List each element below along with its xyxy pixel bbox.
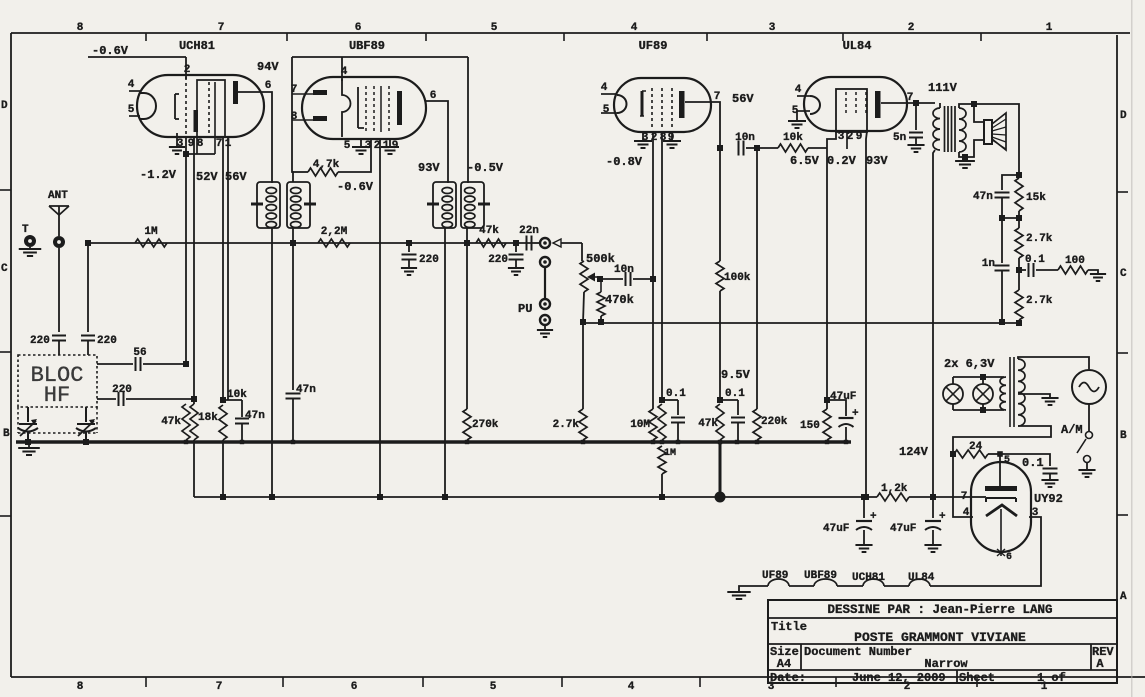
ground under switch <box>1078 470 1095 477</box>
antenna ANT <box>48 190 69 248</box>
tube UBF89 pin 4 stub <box>341 57 343 81</box>
svg-text:-0.8V: -0.8V <box>606 155 643 169</box>
svg-text:-0.5V: -0.5V <box>467 161 504 175</box>
svg-text:C: C <box>1120 268 1127 280</box>
svg-text:HF: HF <box>44 383 70 408</box>
wire mains bottom to heater node <box>953 426 1051 454</box>
resistor 2.7k (lower) <box>1015 270 1053 326</box>
svg-text:10k: 10k <box>783 132 803 144</box>
voltage labels UCH81 <box>140 168 247 184</box>
svg-text:DESSINE PAR : Jean-Pierre LANG: DESSINE PAR : Jean-Pierre LANG <box>827 603 1052 617</box>
ground under UF89 pin 3 <box>634 132 652 148</box>
resistor 220k <box>753 148 788 440</box>
svg-text:1 of: 1 of <box>1037 671 1066 685</box>
tube UF89 envelope <box>614 39 711 132</box>
border ruler numbers bottom <box>77 677 1048 693</box>
svg-text:2,2M: 2,2M <box>321 226 348 238</box>
svg-text:100k: 100k <box>724 272 751 284</box>
wire junction down to BLOC HF <box>87 243 89 332</box>
wire ANT down to BLOC HF <box>58 248 60 332</box>
tube UY92 envelope <box>971 462 1063 552</box>
svg-text:7: 7 <box>961 491 968 503</box>
wire heater chain to ground <box>739 586 768 592</box>
svg-text:220: 220 <box>112 384 132 396</box>
resistor 2.7k (AF) <box>553 323 587 440</box>
border row letters left <box>0 100 11 516</box>
transformer MAINS secondary winding <box>1018 359 1025 426</box>
svg-text:Document Number: Document Number <box>804 645 912 659</box>
resistor 2,2M <box>318 226 350 247</box>
transformer IF2 primary <box>426 101 456 228</box>
speaker <box>965 104 1006 157</box>
svg-text:220: 220 <box>97 335 117 347</box>
capacitor 47uF (cathode) <box>827 391 859 441</box>
wire UCH81 pin 9 column to B+ rail <box>193 137 195 160</box>
jack terminal top <box>540 238 550 248</box>
ground under UF89 pin 9 <box>663 132 681 148</box>
resistor 47k (UCH81 grid) <box>161 404 190 440</box>
terminal T <box>22 224 36 247</box>
wire UY92 pin 7 anode feed <box>971 496 986 498</box>
svg-text:6: 6 <box>351 681 358 693</box>
node junction -0.6V line <box>85 240 91 246</box>
svg-text:7: 7 <box>216 681 223 693</box>
svg-text:UF89: UF89 <box>639 39 668 53</box>
trimmer capacitor left under BLOC HF <box>18 407 38 441</box>
ground under UBF89 pin 3 <box>352 139 370 154</box>
capacitor 0.1 (10M) <box>662 388 686 441</box>
svg-text:ANT: ANT <box>48 190 68 202</box>
wire UL84 screen column to B+ rail <box>863 131 869 500</box>
resistor 1M (antenna) <box>135 226 167 247</box>
wire UY92 pin 3 to heater chain <box>930 517 1041 586</box>
svg-text:7: 7 <box>291 84 298 96</box>
svg-text:1n: 1n <box>982 258 995 270</box>
svg-text:+: + <box>939 511 946 523</box>
svg-text:220: 220 <box>488 254 508 266</box>
transformer OUT primary <box>933 103 940 150</box>
svg-text:52V: 52V <box>196 170 218 184</box>
node pot wiper <box>597 276 603 282</box>
capacitor 1n <box>982 218 1010 325</box>
bus junction nodes <box>184 440 848 444</box>
svg-text:1: 1 <box>1046 22 1053 34</box>
svg-text:124V: 124V <box>899 445 929 459</box>
wire secondary top to tone network <box>974 104 1022 178</box>
resistor 100 <box>1058 255 1098 274</box>
ground speaker <box>955 157 975 168</box>
wire IF1 secondary bottom to detector line <box>290 228 296 390</box>
capacitor 0.1 (47k) <box>720 388 745 441</box>
svg-text:7: 7 <box>216 138 223 150</box>
tube UBF89 envelope <box>302 39 426 139</box>
svg-text:4,7k: 4,7k <box>313 159 340 171</box>
svg-text:B: B <box>3 428 10 440</box>
wire UBF89 screen column to B+ rail <box>377 139 383 500</box>
ground under 47uF 2 <box>924 545 941 552</box>
svg-text:270k: 270k <box>472 419 499 431</box>
svg-text:2: 2 <box>651 132 658 144</box>
capacitor 47uF (filter 2) <box>890 497 946 545</box>
transformer IF2 secondary <box>461 57 490 228</box>
wire UF89 anode to 10n <box>685 102 723 151</box>
svg-text:T: T <box>22 224 29 236</box>
svg-text:A4: A4 <box>777 657 791 671</box>
svg-text:10M: 10M <box>630 419 650 431</box>
tube UL84 internals <box>797 89 881 149</box>
tube UY92 internals <box>985 455 1017 563</box>
heater UF89 <box>768 579 789 586</box>
wire thick bus tap <box>719 443 722 492</box>
node trimmer right on bus <box>83 439 89 445</box>
capacitor 220 (detector) <box>488 240 523 268</box>
svg-text:2x 6,3V: 2x 6,3V <box>944 357 995 371</box>
ground under UCH81 pin 3 <box>169 133 185 154</box>
svg-text:0.2V: 0.2V <box>827 154 857 168</box>
tube UBF89 pin labels <box>291 66 437 152</box>
svg-text:2: 2 <box>184 64 191 76</box>
svg-text:Sheet: Sheet <box>959 671 995 685</box>
wire lamps top <box>953 374 1004 380</box>
node UY92 pin 5 <box>997 451 1003 457</box>
svg-text:5: 5 <box>344 140 351 152</box>
svg-text:4: 4 <box>631 22 638 34</box>
svg-text:-1.2V: -1.2V <box>140 168 177 182</box>
svg-text:A: A <box>1120 591 1127 603</box>
svg-text:UL84: UL84 <box>843 39 872 53</box>
svg-text:47k: 47k <box>161 416 181 428</box>
wire IF1 secondary top to 4.7k node <box>292 57 293 182</box>
wire detector line y=243 <box>88 242 534 244</box>
svg-text:6: 6 <box>265 80 272 92</box>
switch A/M <box>1061 404 1093 470</box>
wire UF89 grid column <box>649 132 657 440</box>
svg-text:5: 5 <box>128 104 135 116</box>
resistor 1M (bleeder) <box>658 446 676 500</box>
svg-text:220k: 220k <box>761 416 788 428</box>
svg-text:A/M: A/M <box>1061 423 1083 437</box>
tube UL84 envelope <box>804 39 907 131</box>
svg-text:D: D <box>1 100 8 112</box>
tube UBF89 internals <box>292 79 402 137</box>
svg-text:100: 100 <box>1065 255 1085 267</box>
resistor 150 <box>800 400 831 440</box>
svg-text:PU: PU <box>518 302 532 316</box>
resistor 10k (UCH81) <box>219 389 247 497</box>
ground under UBF89 pin 1 <box>381 139 399 154</box>
svg-text:56V: 56V <box>732 92 754 106</box>
ground under UL84 pin 5 <box>788 111 806 128</box>
wire IF2 secondary bottom to detector line <box>464 228 470 409</box>
svg-text:47k: 47k <box>479 225 499 237</box>
resistor 2.7k (upper) <box>1015 218 1053 273</box>
plug arrow <box>553 239 582 247</box>
node heater 24 left <box>950 451 956 457</box>
wire UBF89 grid top loop <box>292 56 468 58</box>
svg-text:93V: 93V <box>418 161 440 175</box>
svg-text:9: 9 <box>856 131 863 143</box>
svg-text:UCH81: UCH81 <box>179 39 215 53</box>
transformer OUT core <box>945 106 956 152</box>
capacitor 220 (ant left) <box>30 335 66 355</box>
svg-text:UL84: UL84 <box>908 572 935 584</box>
jack terminal 2 <box>540 257 550 267</box>
svg-text:2.7k: 2.7k <box>1026 295 1053 307</box>
node trimmer left on bus <box>25 439 31 445</box>
wire IF1 primary to B+ rail <box>269 228 275 500</box>
jack terminal 4 <box>540 315 550 325</box>
border row letters right <box>1117 110 1128 603</box>
svg-text:6: 6 <box>1006 552 1012 563</box>
svg-text:150: 150 <box>800 420 820 432</box>
svg-text:220: 220 <box>30 335 50 347</box>
tube UF89 internals <box>601 88 685 130</box>
svg-text:93V: 93V <box>866 154 888 168</box>
svg-text:3: 3 <box>769 22 776 34</box>
capacitor 0.1 (UY92) <box>1000 454 1058 480</box>
capacitor 10n (AF coupling) <box>600 264 656 286</box>
svg-text:111V: 111V <box>928 81 958 95</box>
jack terminal 3 PU <box>518 299 550 316</box>
svg-text:47uF: 47uF <box>890 523 916 535</box>
resistor 270k <box>463 409 499 440</box>
svg-text:2.7k: 2.7k <box>1026 233 1053 245</box>
capacitor 220 (AGC) <box>402 240 439 268</box>
svg-text:0.1: 0.1 <box>725 388 745 400</box>
wire UL84 cathode column <box>824 132 836 403</box>
svg-text:8: 8 <box>197 138 204 150</box>
svg-text:June 12, 2009: June 12, 2009 <box>852 671 946 685</box>
block BLOC HF <box>18 355 97 408</box>
svg-text:UBF89: UBF89 <box>349 39 385 53</box>
heater UBF89 <box>789 579 837 586</box>
svg-text:22n: 22n <box>519 225 539 237</box>
svg-text:4: 4 <box>341 66 348 78</box>
capacitor 10n (UL84 grid) <box>735 132 760 156</box>
capacitor 56 <box>97 347 189 371</box>
wire mains top to AC source <box>1018 357 1089 369</box>
wire mains center tap <box>1018 394 1050 398</box>
node B+ 47uF 1 <box>861 494 867 500</box>
node B+ 47uF 2 <box>930 494 936 500</box>
svg-text:4: 4 <box>601 82 608 94</box>
tube UF89 pin labels <box>601 82 721 144</box>
svg-text:D: D <box>1120 110 1127 122</box>
transformer MAINS core <box>1010 357 1014 427</box>
ground under T <box>19 247 42 256</box>
svg-text:POSTE GRAMMONT VIVIANE: POSTE GRAMMONT VIVIANE <box>854 630 1026 645</box>
svg-text:5: 5 <box>603 104 610 116</box>
svg-text:2: 2 <box>908 22 915 34</box>
svg-text:+: + <box>870 511 877 523</box>
svg-text:-0.6V: -0.6V <box>337 180 374 194</box>
AC source <box>1072 370 1106 404</box>
svg-text:A: A <box>1096 657 1104 671</box>
transformer IF1 primary <box>238 92 280 228</box>
capacitor 22n <box>519 225 539 251</box>
transformer IF1 secondary <box>287 182 316 228</box>
svg-text:9: 9 <box>668 132 675 144</box>
wire UCH81 pin 8 column <box>183 137 215 364</box>
resistor 4,7k <box>292 139 371 176</box>
ground under PU jack <box>537 326 553 337</box>
resistor 10k (UL84 grid stopper) <box>757 132 827 152</box>
node speaker top junction <box>971 101 977 107</box>
svg-text:2.7k: 2.7k <box>553 419 580 431</box>
svg-text:1,2k: 1,2k <box>881 483 908 495</box>
svg-text:8: 8 <box>291 111 298 123</box>
wire IF2 primary to B+ rail <box>442 228 448 500</box>
capacitor 5n <box>893 103 923 145</box>
svg-text:4: 4 <box>128 79 135 91</box>
ground after 100 <box>1090 274 1106 281</box>
capacitor 47n (IF1) <box>286 384 316 441</box>
svg-text:0.1: 0.1 <box>1022 456 1044 470</box>
capacitor 47n (UCH81 cathode) <box>223 400 265 441</box>
svg-text:UCH81: UCH81 <box>852 572 885 584</box>
svg-text:6: 6 <box>355 22 362 34</box>
tube UCH81 pin labels <box>128 60 280 150</box>
transformer OUT secondary <box>959 104 974 157</box>
svg-text:8: 8 <box>77 22 84 34</box>
scan edge artifact line <box>1131 0 1133 697</box>
svg-text:47k: 47k <box>698 418 718 430</box>
wire lamps bottom <box>953 407 1004 413</box>
svg-text:-0.6V: -0.6V <box>92 44 129 58</box>
svg-text:5: 5 <box>491 22 498 34</box>
ground bus wire <box>16 440 851 443</box>
resistor 10M <box>630 404 666 440</box>
svg-text:6.5V: 6.5V <box>790 154 820 168</box>
wire UCH81 pin 1 column <box>227 137 229 400</box>
ground under 220 detector <box>508 268 524 275</box>
resistor 18k <box>190 404 218 497</box>
svg-text:500k: 500k <box>586 252 615 266</box>
svg-text:5: 5 <box>1004 455 1010 466</box>
resistor 470k <box>597 279 634 325</box>
resistor 24 <box>954 441 1000 458</box>
svg-text:47uF: 47uF <box>830 391 856 403</box>
tube UCH81 envelope <box>137 39 264 137</box>
svg-text:94V: 94V <box>257 60 279 74</box>
resistor 100k <box>716 148 751 403</box>
svg-text:5: 5 <box>490 681 497 693</box>
resistor 47k (UL84 divider) <box>698 404 724 440</box>
svg-text:47n: 47n <box>245 410 265 422</box>
tube UY92 pin labels <box>961 491 1039 519</box>
potentiometer 500k <box>580 243 615 323</box>
resistor 15k <box>1015 178 1046 221</box>
svg-text:Date:: Date: <box>770 671 806 685</box>
tube UL84 pin labels <box>792 84 914 143</box>
ground heater chain <box>727 592 750 599</box>
svg-text:+: + <box>852 408 859 420</box>
wire UY92 pin 4 heater <box>953 454 973 517</box>
resistor 47k (detector) <box>476 225 506 247</box>
ground mains center tap <box>1041 398 1058 405</box>
svg-text:9.5V: 9.5V <box>721 368 751 382</box>
svg-text:3: 3 <box>838 131 845 143</box>
svg-text:8: 8 <box>77 681 84 693</box>
wire output transformer B+ column <box>933 150 935 497</box>
svg-text:4: 4 <box>628 681 635 693</box>
heater UL84 <box>884 579 930 586</box>
svg-text:Narrow: Narrow <box>924 657 968 671</box>
svg-text:0.1: 0.1 <box>666 388 686 400</box>
capacitor 47n (tone) <box>973 175 1019 221</box>
title block <box>768 600 1117 685</box>
svg-text:Title: Title <box>771 620 807 634</box>
svg-text:1M: 1M <box>144 226 158 238</box>
ground under 5n <box>907 145 924 152</box>
node big junction B+ <box>715 492 726 503</box>
svg-text:47uF: 47uF <box>823 523 849 535</box>
lamp 1 <box>943 377 963 410</box>
svg-text:4: 4 <box>795 84 802 96</box>
wire tone node tie <box>1002 217 1019 219</box>
svg-text:15k: 15k <box>1026 192 1046 204</box>
svg-text:7: 7 <box>218 22 225 34</box>
voltage labels UL84 <box>790 154 888 168</box>
wire UF89 cathode column <box>659 132 665 403</box>
heater UCH81 <box>837 579 884 586</box>
lamp 2 <box>973 377 993 410</box>
wire UCH81 pin column 18k <box>193 160 195 404</box>
tube UCH81 internals <box>129 77 238 154</box>
ground at bus left <box>18 444 40 455</box>
svg-text:C: C <box>1 263 8 275</box>
capacitor 220 (osc) <box>97 384 197 406</box>
wire UL84 anode to output transformer <box>881 100 935 106</box>
wire PU link <box>544 268 546 298</box>
wire B+ rail y=497 <box>194 496 877 498</box>
node speaker ground junction <box>962 154 968 160</box>
ground under 47uF 1 <box>855 545 872 552</box>
svg-text:220: 220 <box>419 254 439 266</box>
capacitor 47uF (filter 1) <box>823 497 877 545</box>
tuning gang dashed enclosure <box>18 407 97 433</box>
trimmer capacitor right under BLOC HF <box>76 407 96 441</box>
svg-text:2: 2 <box>847 131 854 143</box>
svg-text:5n: 5n <box>893 132 906 144</box>
transformer MAINS primary winding <box>1000 377 1006 410</box>
ground under 220 AGC <box>401 268 417 275</box>
capacitor 0.1 (tone) <box>1019 254 1058 277</box>
resistor 1,2k <box>877 483 971 501</box>
wire AF return line y=323 <box>580 319 1019 325</box>
wire UCH81 pin 7 column to B+ rail <box>220 137 226 500</box>
svg-text:18k: 18k <box>198 412 218 424</box>
border ruler numbers top <box>77 22 1053 41</box>
svg-text:8: 8 <box>660 132 667 144</box>
svg-text:B: B <box>1120 430 1127 442</box>
svg-text:UY92: UY92 <box>1034 492 1063 506</box>
svg-text:470k: 470k <box>605 293 634 307</box>
ground under 0.1 UY92 <box>1041 480 1058 487</box>
svg-text:47n: 47n <box>973 191 993 203</box>
heater chain labels <box>762 570 935 584</box>
wire -0.6V grid loop UCH81 <box>88 44 186 79</box>
capacitor 220 (ant right) <box>81 335 117 355</box>
